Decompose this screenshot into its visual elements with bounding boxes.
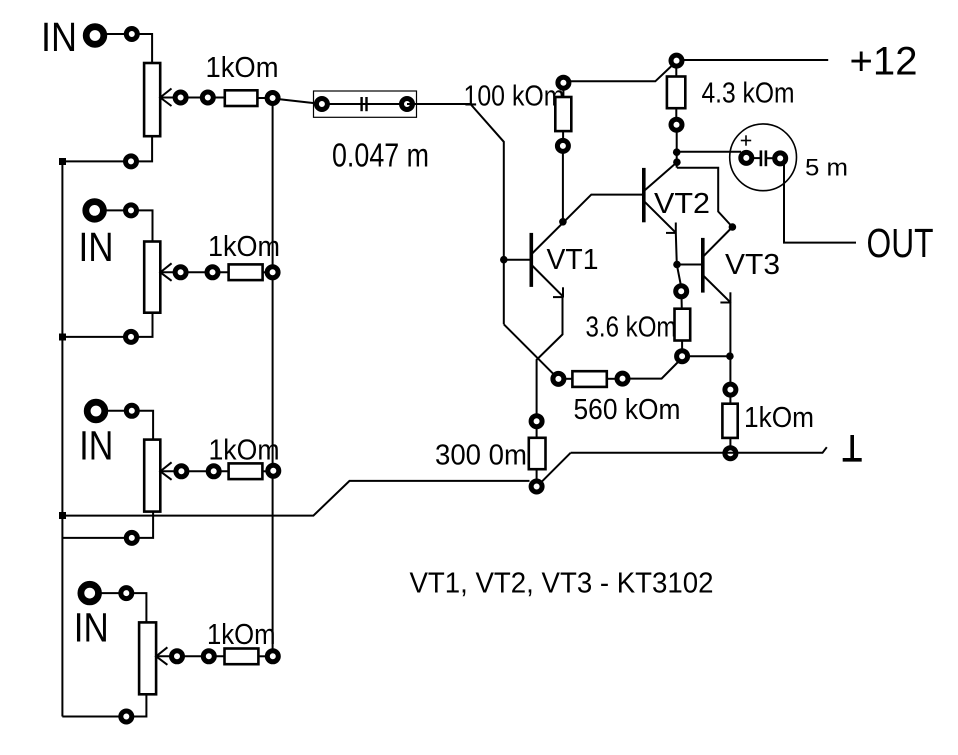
junction VT2 emitter / VT3 base xyxy=(673,261,681,269)
pin circle ch4 mid xyxy=(203,651,214,662)
transistor VT1 collector xyxy=(532,195,644,254)
svg-text:VT3: VT3 xyxy=(725,249,780,281)
pin circle ch2 wiper xyxy=(175,267,186,278)
pin circle 300 bottom xyxy=(531,481,542,492)
svg-text:VT1, VT2, VT3 - KT3102: VT1, VT2, VT3 - KT3102 xyxy=(410,567,714,599)
svg-text:1kOm: 1kOm xyxy=(206,52,279,84)
svg-text:0.047 m: 0.047 m xyxy=(332,136,429,173)
svg-text:300 0m: 300 0m xyxy=(435,439,527,471)
pin circle C1 left xyxy=(316,99,327,110)
wire bus to capacitor C1 xyxy=(273,99,322,105)
wire left ground bus xyxy=(61,161,63,716)
svg-text:5 m: 5 m xyxy=(805,154,848,181)
wire VT2 collector to VT3 collector xyxy=(677,168,733,227)
wire 560k right stub xyxy=(607,378,617,380)
wire resistor to bus ch2 xyxy=(263,271,273,273)
wiper arrow P2 xyxy=(160,263,171,281)
svg-text:100 kOm: 100 kOm xyxy=(464,81,565,113)
svg-text:IN: IN xyxy=(41,14,77,60)
wire wiper to resistor ch3 xyxy=(187,470,229,472)
wiper arrow P4 xyxy=(156,647,167,665)
wire dot3 to VT3 bar xyxy=(703,227,732,257)
svg-text:3.6 kOm: 3.6 kOm xyxy=(586,311,677,343)
wire pot3 bottom to ground bus xyxy=(62,512,153,538)
transistor VT3 emitter xyxy=(703,276,730,303)
wire 100k bottom stub xyxy=(562,131,564,141)
wire 3.6k bottom stub xyxy=(681,341,683,351)
wiper arrow P3 xyxy=(160,462,171,480)
wire 100k to VT1 collector xyxy=(562,151,564,222)
resistor 1kOm out xyxy=(722,404,737,438)
VT1 emitter arrowhead xyxy=(562,287,564,297)
pin circle ch3 bus xyxy=(268,465,279,476)
wiper arrow P1 xyxy=(160,89,171,107)
input jack IN3 xyxy=(87,402,105,420)
wire resistor to bus ch4 xyxy=(258,655,272,657)
pin circle C2 left xyxy=(741,152,752,163)
pin circle 1k bottom xyxy=(725,448,736,459)
resistor 1kOm ch4 xyxy=(225,649,259,665)
resistor 1kOm ch1 xyxy=(225,90,258,106)
wire VT3 emitter down xyxy=(729,302,731,384)
transistor VT1 base bar xyxy=(529,233,533,287)
wire jack3 to pot3 top xyxy=(105,411,153,440)
pin circle 560k left xyxy=(553,373,564,384)
resistor 4.3 kOm xyxy=(667,77,685,109)
pin circle ch1 ground xyxy=(126,156,137,167)
svg-text:VT2: VT2 xyxy=(654,188,710,220)
junction dot2 (VT3 branch) xyxy=(673,158,681,166)
pin circle ch1 input xyxy=(126,29,137,40)
pin circle ch1 mid xyxy=(202,92,213,103)
VT3 emitter arrowhead xyxy=(729,292,731,302)
wire dot1 to 5m cap xyxy=(677,151,741,153)
wire pot1 bottom to ground bus xyxy=(62,136,152,161)
pin circle ch4 bus xyxy=(267,651,278,662)
junction 100k / collector xyxy=(559,218,567,226)
pin circle ch4 wiper xyxy=(172,651,183,662)
junction long ground link xyxy=(59,512,66,519)
wire 560k to 3.6k node xyxy=(628,361,680,379)
pin circle 4.3k bottom xyxy=(671,119,682,130)
pin circle ch3 wiper xyxy=(176,466,187,477)
pin circle ch2 input xyxy=(126,205,137,216)
wire jack2 to pot2 top xyxy=(104,210,153,241)
capacitor C1 plates xyxy=(360,97,362,111)
pin circle ch2 ground xyxy=(126,331,137,342)
pin circle +12 node xyxy=(671,55,682,66)
wire 4.3k bottom stub xyxy=(675,108,677,120)
pin circle ch4 ground xyxy=(121,711,132,722)
wire 100k top to +12 node xyxy=(562,88,564,97)
wire long ground link xyxy=(62,481,529,516)
pin circle 300 top xyxy=(531,416,542,427)
wire +12 node to 4.3k xyxy=(675,66,677,77)
potentiometer P1 xyxy=(144,63,160,136)
ground symbol xyxy=(850,435,854,459)
junction VT1 base node xyxy=(500,256,508,264)
wire C2 stubs xyxy=(751,157,760,159)
wire 300 bottom stub xyxy=(536,469,538,481)
capacitor C2 5m outline xyxy=(730,124,797,191)
input jack IN1 xyxy=(86,27,104,45)
resistor 3.6 kOm xyxy=(675,309,691,341)
wire wiper to resistor ch4 xyxy=(182,655,225,657)
wire pot2 bottom to ground bus xyxy=(62,313,152,337)
VT2 emitter arrowhead xyxy=(675,223,677,233)
svg-text:VT1: VT1 xyxy=(547,244,599,276)
junction dot1 (5m branch) xyxy=(673,148,681,156)
wire ground rail xyxy=(571,447,827,453)
svg-text:560 kOm: 560 kOm xyxy=(574,394,681,426)
junction ch2 ground bus xyxy=(59,334,66,341)
input jack IN2 xyxy=(86,202,104,220)
wire +12 rail xyxy=(684,59,829,61)
svg-text:1kOm: 1kOm xyxy=(744,402,814,434)
wire wiper to resistor ch2 xyxy=(186,271,229,273)
junction dot3 xyxy=(729,223,737,231)
pin circle ch2 bus xyxy=(267,267,278,278)
wire C1 to VT1 base node xyxy=(407,104,504,324)
pin circle 3.6k top xyxy=(676,286,687,297)
svg-text:1kOm: 1kOm xyxy=(208,231,280,263)
potentiometer P2 xyxy=(144,242,160,313)
wire VT2 emitter to 3.6k top xyxy=(676,233,681,287)
capacitor C2 plates xyxy=(760,150,763,166)
wire bias diagonal to 560k xyxy=(504,324,559,379)
wire VT1 base xyxy=(504,259,530,261)
wire 300 top stub xyxy=(536,427,538,438)
wire resistor to bus ch1 xyxy=(257,97,272,99)
pin circle C1 right xyxy=(402,99,413,110)
pin circle ch2 mid xyxy=(207,267,218,278)
wire C2 to OUT xyxy=(784,163,856,243)
transistor VT2 emitter xyxy=(644,201,676,232)
junction 3.6k / VT3 emitter xyxy=(726,352,734,360)
wire pot4 bottom to ground bus xyxy=(62,694,146,716)
pin circle ch3 input xyxy=(126,405,137,416)
pin circle ch4 input xyxy=(121,588,132,599)
pin circle 1k top xyxy=(725,384,736,395)
wire jack4 to pot4 top xyxy=(99,593,146,622)
wire 560k left stub xyxy=(564,378,573,380)
wire VT1 emitter down xyxy=(537,297,563,416)
resistor 300 0m xyxy=(529,438,546,469)
svg-text:OUT: OUT xyxy=(867,220,934,266)
wire wiper to resistor ch1 xyxy=(186,97,225,99)
potentiometer P3 xyxy=(144,440,160,512)
svg-text:4.3 kOm: 4.3 kOm xyxy=(702,77,795,109)
transistor VT3 base bar xyxy=(701,238,705,293)
wire 1k top stub xyxy=(729,395,731,404)
pin circle 100k top xyxy=(558,77,569,88)
svg-text:1kOm: 1kOm xyxy=(209,434,280,466)
resistor 1kOm ch3 xyxy=(229,463,263,479)
wire jack1 to pot1 top xyxy=(104,34,152,63)
wire 300 to ground rail diagonal xyxy=(542,453,571,482)
svg-text:+12: +12 xyxy=(850,40,918,84)
wire mixing bus xyxy=(272,98,274,656)
wire 3.6k bottom to emitter node xyxy=(688,355,730,357)
wire 3.6k top stub xyxy=(681,297,683,309)
resistor 100 kOm xyxy=(555,97,571,131)
capacitor C2 polarity + xyxy=(741,140,751,142)
pin circle ch3 mid xyxy=(208,466,219,477)
svg-text:IN: IN xyxy=(79,224,114,270)
transistor VT2 base bar xyxy=(642,168,646,222)
input jack IN4 xyxy=(81,584,99,602)
resistor 1kOm ch2 xyxy=(229,264,263,280)
svg-text:IN: IN xyxy=(74,605,109,651)
wire resistor to bus ch3 xyxy=(262,470,273,472)
pin circle ch1 bus xyxy=(267,93,278,104)
potentiometer P4 xyxy=(139,622,156,694)
svg-text:1kOm: 1kOm xyxy=(207,619,276,651)
wire 1k bottom stub xyxy=(729,438,731,448)
wire 4.3k to VT2 collector node xyxy=(676,130,678,168)
pin circle ch3 ground xyxy=(126,532,137,543)
pin circle 100k bottom xyxy=(557,140,568,151)
wire VT3 base xyxy=(677,264,701,266)
resistor 560 kOm xyxy=(572,371,606,387)
junction ch1 ground bus xyxy=(59,158,66,165)
pin circle 3.6k bottom xyxy=(677,351,688,362)
capacitor C1 body 0.047m xyxy=(314,91,417,117)
svg-text:IN: IN xyxy=(79,423,113,469)
transistor VT2 collector xyxy=(645,162,677,190)
pin circle ch1 wiper xyxy=(175,92,186,103)
transistor VT1 emitter xyxy=(532,266,562,296)
pin circle 560k right xyxy=(617,373,628,384)
pin circle C2 right xyxy=(775,153,786,164)
